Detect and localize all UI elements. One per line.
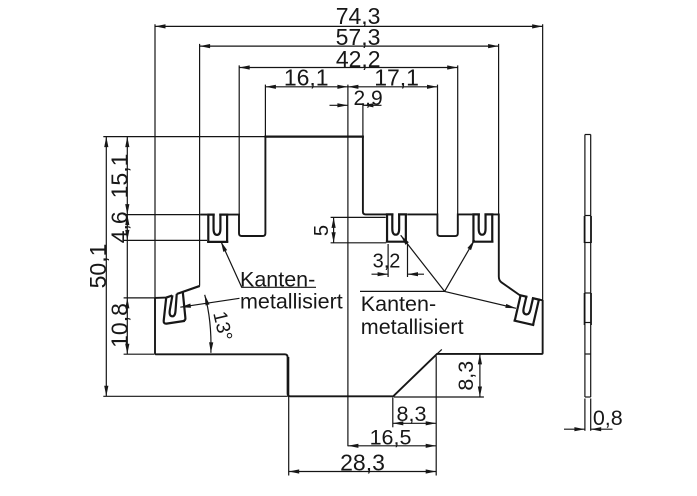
dimension 28,3	[289, 449, 437, 475]
svg-text:16,1: 16,1	[284, 65, 329, 91]
leaders right Kanten text	[360, 235, 516, 308]
part lower outline	[155, 298, 543, 396]
slot right-top	[472, 213, 493, 242]
svg-text:Kanten-: Kanten-	[361, 292, 436, 316]
dimension 17,1	[348, 65, 438, 91]
dimension 4,6	[106, 211, 132, 243]
dimension 50,1	[85, 137, 111, 397]
dimension 16,5	[348, 426, 436, 450]
tilted tab left	[164, 286, 200, 324]
svg-text:metallisiert: metallisiert	[361, 315, 464, 339]
leader left tab to Kanten text	[180, 298, 239, 307]
svg-text:4,6: 4,6	[106, 211, 132, 243]
leader left slot to Kanten text	[221, 241, 316, 287]
dimension 57,3	[200, 24, 499, 50]
svg-text:15,1: 15,1	[106, 154, 132, 199]
extension lines	[103, 24, 590, 475]
side view plate	[584, 135, 591, 398]
dimension 8,3 horizontal	[393, 402, 436, 426]
dimension 74,3	[155, 3, 543, 29]
step to left tab	[155, 297, 166, 299]
tilted tab right	[514, 293, 541, 325]
svg-text:16,5: 16,5	[370, 426, 412, 450]
dimension 5	[310, 217, 334, 242]
svg-text:5: 5	[310, 225, 333, 236]
dimension 15,1	[106, 137, 132, 215]
dimension 3,2	[372, 250, 425, 274]
part upper outline: shoulders, notches, plateau	[200, 137, 520, 296]
dimension 13 degrees	[205, 295, 237, 353]
label Kanten-metallisiert right	[361, 292, 464, 339]
dimension 16,1	[265, 65, 348, 91]
svg-text:metallisiert: metallisiert	[240, 290, 343, 314]
dimension 42,2	[239, 46, 458, 72]
svg-text:8,3: 8,3	[397, 402, 427, 426]
right step to tab	[539, 299, 543, 302]
slot center (3,2)	[386, 213, 407, 242]
dimension 10,8	[106, 240, 132, 354]
svg-text:Kanten-: Kanten-	[240, 267, 315, 291]
svg-text:2,9: 2,9	[353, 87, 382, 110]
dimension 8,3 vertical	[454, 354, 480, 397]
plateau top edge bold	[264, 136, 364, 138]
svg-text:3,2: 3,2	[373, 250, 401, 272]
label Kanten-metallisiert left	[240, 267, 343, 313]
svg-text:50,1: 50,1	[85, 244, 111, 289]
svg-text:0,8: 0,8	[593, 406, 623, 430]
diagonal overshoot	[436, 349, 441, 354]
dimension 2,9	[330, 87, 383, 110]
svg-text:8,3: 8,3	[454, 361, 478, 391]
dimension 0,8	[564, 406, 623, 430]
svg-text:10,8: 10,8	[106, 303, 132, 348]
slot left-top	[207, 213, 228, 242]
svg-text:28,3: 28,3	[340, 449, 385, 475]
